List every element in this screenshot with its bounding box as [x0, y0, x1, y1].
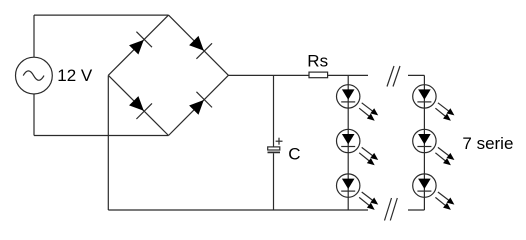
wire: bridge edge top-left — [108, 15, 168, 75]
LED string1-3 — [337, 174, 379, 210]
wire: bottom rail — [108, 209, 368, 211]
LED string2-1 — [413, 85, 455, 121]
AC source V1 (12 V sine source) — [16, 57, 53, 94]
diode D4 (bridge) — [189, 92, 212, 115]
wire: capacitor branch upper — [273, 75, 275, 147]
LED string1-2 — [337, 129, 379, 165]
wire: LED string 2 vertical — [423, 75, 425, 210]
wire: bridge edge bottom-left — [108, 75, 168, 135]
capacitor + polarity mark — [276, 138, 283, 145]
LED string2-3 — [413, 174, 455, 210]
wire: left side below AC source — [33, 94, 35, 136]
svg-text:12 V: 12 V — [57, 66, 93, 85]
wire: top rail from AC source to bridge top vertex — [34, 14, 169, 16]
wire: capacitor branch lower — [273, 153, 275, 210]
wire: bridge edge bottom-right — [169, 75, 229, 135]
resistor Rs — [309, 72, 328, 78]
wire: bottom AC wire to bridge bottom vertex — [34, 135, 169, 137]
diode D3 (bridge) — [129, 96, 152, 119]
svg-text:7 serie: 7 serie — [462, 134, 513, 153]
diode D2 (bridge) — [189, 36, 212, 59]
wire: LED string 2 top stub — [408, 74, 424, 76]
LED string2-2 — [413, 129, 455, 165]
svg-text:C: C — [288, 144, 300, 163]
wire: left side above AC source — [33, 15, 35, 57]
break mark // top — [387, 66, 400, 87]
wire: bridge negative (left vertex) down to bottom rail — [107, 75, 109, 210]
wire: bridge positive (right vertex) to resistor — [228, 74, 309, 76]
capacitor C (polarized) — [268, 147, 281, 153]
wire: resistor to LED string 1 top — [328, 74, 368, 76]
svg-text:Rs: Rs — [307, 52, 328, 71]
wire: bridge edge top-right — [169, 15, 229, 75]
wire: LED string 1 vertical — [347, 75, 349, 210]
wire: LED string 2 bottom stub — [408, 209, 424, 211]
break mark // bottom — [385, 198, 398, 221]
LED string1-1 — [337, 85, 379, 121]
diode D1 (bridge) — [129, 32, 152, 55]
